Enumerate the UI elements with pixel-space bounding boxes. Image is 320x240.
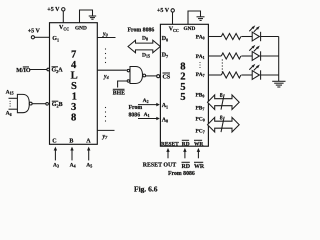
svg-text:WR: WR <box>194 141 203 147</box>
signal label RD <box>182 162 191 170</box>
LED D1 <box>249 25 260 41</box>
ellipsis dots between Y0 and Y4 <box>105 48 106 63</box>
svg-text:5: 5 <box>180 92 185 103</box>
label From 8086 at address lines <box>129 105 143 118</box>
svg-text:PA7: PA7 <box>196 72 205 78</box>
svg-text:D15: D15 <box>142 53 150 59</box>
wire +5V terminal to U4 Vcc <box>172 12 174 24</box>
ground symbol at LED bus <box>272 81 285 87</box>
U2 output bubble <box>29 102 32 105</box>
inverter bubble at U1 G2A pin <box>47 68 50 71</box>
decoder U1 74LS138 body <box>50 23 98 145</box>
svg-text:D8: D8 <box>142 35 148 41</box>
wire RD from 8086 to U4 RD <box>183 148 186 158</box>
svg-text:B: B <box>69 138 73 144</box>
wire U4 GND pin to ground <box>188 11 201 24</box>
svg-text:A: A <box>86 138 91 144</box>
U4 pin WR <box>194 140 203 147</box>
svg-text:8: 8 <box>220 93 223 99</box>
svg-text:A0: A0 <box>162 117 168 123</box>
PPI U4 8255 body <box>160 24 208 146</box>
ellipsis dots between PA1 and PA7 <box>199 62 200 68</box>
svg-text:From 8086: From 8086 <box>168 171 195 177</box>
svg-text:PB7: PB7 <box>196 105 205 111</box>
wire U4 PA7 to resistor R3 <box>208 74 221 76</box>
inverter bubble at U4 CS pin <box>157 75 160 78</box>
wire U4 PA1 to resistor R2 <box>208 55 221 57</box>
svg-text:GND: GND <box>184 26 196 32</box>
svg-text:PA1: PA1 <box>196 54 205 60</box>
svg-text:4: 4 <box>71 60 77 71</box>
inverter bubble at U1 G2B pin <box>46 103 49 106</box>
wire M/IO to G2A bubble <box>30 69 47 71</box>
wire U1 output Y7 <box>97 129 114 131</box>
ellipsis dots between PA branch rows <box>222 59 223 72</box>
U4 pin RD <box>182 140 190 147</box>
U2 input stub A6 <box>9 108 18 110</box>
svg-text:y7: y7 <box>102 134 109 140</box>
U1 device label 74LS138 <box>71 50 78 124</box>
svg-text:2: 2 <box>180 72 185 83</box>
svg-text:S: S <box>71 81 77 92</box>
svg-text:From 8086: From 8086 <box>128 27 155 33</box>
svg-text:From: From <box>129 105 143 111</box>
wire LED D1 to ground bus <box>261 36 279 38</box>
chip-select gate U3 <box>130 67 143 84</box>
svg-text:8: 8 <box>71 113 76 124</box>
wire select input C from A3 <box>54 147 57 161</box>
svg-text:PA0: PA0 <box>196 34 205 40</box>
svg-text:A6: A6 <box>6 111 12 117</box>
wire R1 to LED D1 <box>241 36 252 38</box>
svg-text:RESET OUT: RESET OUT <box>143 163 177 169</box>
wire R3 to LED D3 <box>241 74 252 76</box>
svg-text:PC0: PC0 <box>196 117 205 123</box>
svg-text:VCC: VCC <box>169 27 179 34</box>
U4 pin CS <box>163 73 171 81</box>
svg-text:M/IO: M/IO <box>16 68 31 74</box>
ellipsis dots between U2 inputs <box>10 101 11 107</box>
svg-text:D0: D0 <box>162 36 168 42</box>
svg-text:VCC: VCC <box>59 25 69 32</box>
svg-text:+5 V: +5 V <box>28 29 41 35</box>
svg-text:Fig. 6.6: Fig. 6.6 <box>134 184 158 193</box>
svg-text:D7: D7 <box>162 53 168 59</box>
ground symbol at U1 GND <box>89 16 97 19</box>
ground symbol at U4 GND <box>197 17 205 21</box>
signal label BHE <box>113 89 125 96</box>
U1 pin G2B <box>52 101 63 108</box>
data bus double arrow D8-D15 <box>128 40 160 53</box>
svg-text:A5: A5 <box>86 162 92 168</box>
svg-text:8086: 8086 <box>129 113 141 119</box>
svg-text:A2: A2 <box>143 98 149 104</box>
address NAND gate U2 <box>17 94 29 112</box>
bus width slash on port B arrow <box>221 94 224 109</box>
svg-text:G1: G1 <box>52 36 59 42</box>
svg-text:BHE: BHE <box>113 91 125 97</box>
svg-text:7: 7 <box>71 50 77 61</box>
+5V supply terminal at U1 G1 <box>28 29 41 39</box>
svg-text:PC7: PC7 <box>196 129 205 135</box>
svg-text:GND: GND <box>75 25 87 31</box>
wire +5V terminal to U1 Vcc <box>62 11 64 23</box>
svg-text:A1: A1 <box>144 112 150 118</box>
resistor R1 <box>221 34 241 40</box>
wire U1 GND pin to ground <box>80 10 93 23</box>
U3 output bubble <box>143 74 146 77</box>
wire select input B from A4 <box>70 147 73 161</box>
svg-text:RD: RD <box>182 164 191 170</box>
resistor R3 <box>221 72 241 78</box>
svg-text:3: 3 <box>71 102 76 113</box>
resistor R2 <box>221 53 241 59</box>
U3 input bubble top <box>127 69 129 71</box>
svg-text:G2A: G2A <box>52 68 64 74</box>
U4 device label 8255 <box>180 62 185 103</box>
wire U2 output to G2B bubble <box>32 103 46 105</box>
port B bus double arrow <box>208 95 240 110</box>
wire U1 output Y4 to gate U3 <box>97 69 126 71</box>
LED D3 <box>249 64 260 80</box>
wire RESET OUT to U4 RESET <box>166 148 169 158</box>
svg-text:WR: WR <box>194 164 205 170</box>
svg-text:+5 V: +5 V <box>47 7 60 13</box>
wire LED D3 to ground bus <box>261 74 279 76</box>
wire U3 output to CS bubble <box>146 75 157 77</box>
LED common return bus wire <box>278 37 280 82</box>
wire U4 PA0 to resistor R1 <box>208 36 221 38</box>
port C bus double arrow <box>208 117 240 132</box>
LED D2 <box>249 45 260 61</box>
svg-text:+5 V: +5 V <box>157 8 170 14</box>
U1 pin G2A <box>52 67 64 74</box>
svg-text:A4: A4 <box>70 162 76 168</box>
svg-text:y0: y0 <box>102 31 109 37</box>
wire U1 output Y0 <box>97 37 115 39</box>
svg-text:A3: A3 <box>53 162 59 168</box>
svg-text:RESET: RESET <box>161 141 179 147</box>
U3 input bubble bottom <box>127 80 129 82</box>
svg-text:C: C <box>52 138 56 144</box>
ellipsis dots between Y4 and Y7 <box>105 107 106 122</box>
svg-text:G2B: G2B <box>52 102 63 108</box>
wire WR from 8086 to U4 WR <box>197 148 200 158</box>
wire BHE to U3 input <box>118 81 127 88</box>
svg-text:A15: A15 <box>6 90 14 96</box>
signal label M/IO <box>16 67 31 74</box>
wire R2 to LED D2 <box>241 55 252 57</box>
wire select input A from A5 <box>87 147 90 161</box>
wire +5V terminal to G1 <box>35 36 50 38</box>
svg-text:y4: y4 <box>103 74 109 80</box>
svg-text:1: 1 <box>72 92 77 103</box>
wire LED D2 to ground bus <box>261 55 279 57</box>
svg-text:RD: RD <box>182 141 190 147</box>
+5V supply terminal at U4 Vcc <box>157 8 174 14</box>
svg-text:A1: A1 <box>162 103 168 109</box>
bus width slash on port C arrow <box>221 117 224 132</box>
svg-text:PB0: PB0 <box>196 93 205 99</box>
U2 input stub A15 <box>9 97 18 99</box>
svg-text:8: 8 <box>220 116 223 122</box>
svg-text:CS: CS <box>163 75 171 81</box>
wire A1 to U4 pin A0 <box>138 117 160 121</box>
wire A2 to U4 pin A1 <box>138 103 160 107</box>
svg-text:L: L <box>71 71 78 82</box>
signal label WR <box>194 162 205 170</box>
+5V supply terminal at U1 Vcc <box>47 7 65 13</box>
